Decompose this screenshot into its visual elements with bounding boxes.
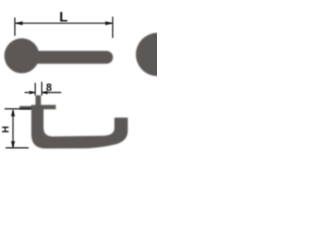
svg-text:8: 8 [46,82,52,94]
svg-text:H: H [1,126,12,133]
svg-text:L: L [59,9,68,25]
